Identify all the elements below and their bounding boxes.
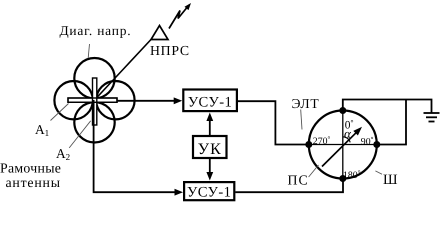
- svg-text:УСУ-1: УСУ-1: [188, 94, 232, 110]
- wire upper USU-1 to CRT left plate: [238, 101, 306, 144]
- angle alpha arc: [343, 137, 350, 143]
- loop antenna A1 horizontal frame: [68, 98, 117, 102]
- incoming radio wave zigzag arrow: [169, 5, 189, 29]
- callout line from Sh to CRT: [375, 171, 382, 174]
- ground symbol: [424, 112, 440, 114]
- wire UK to lower USU-1: [209, 158, 211, 174]
- NPRS antenna triangle: [151, 26, 168, 40]
- wire from loops down to lower USU-1: [94, 100, 175, 192]
- node left plate: [305, 141, 312, 148]
- svg-text:Диаг. напр.: Диаг. напр.: [60, 23, 132, 38]
- svg-text:НПРС: НПРС: [150, 43, 190, 58]
- crossing of the two loop frames: [68, 98, 117, 102]
- svg-text:Ш: Ш: [383, 172, 398, 188]
- block USU-1 lower: [184, 182, 234, 200]
- svg-text:ЭЛТ: ЭЛТ: [292, 96, 320, 111]
- CRT vertical diameter: [342, 111, 344, 179]
- antenna directivity pattern circle bottom: [74, 102, 114, 142]
- svg-text:УК: УК: [198, 141, 222, 158]
- callout line from A2 to vertical frame: [69, 121, 91, 148]
- wire CRT top plate to ground line: [343, 100, 432, 113]
- callout line from PS to CRT: [309, 165, 319, 177]
- loop antenna A2 vertical frame: [93, 78, 97, 125]
- callout line from ELT to CRT: [301, 110, 302, 130]
- wire from loops to upper USU-1: [117, 100, 175, 102]
- callout line from Diag. napr. to pattern: [88, 44, 89, 58]
- CRT beam pointer arrow: [322, 132, 357, 167]
- callout line from A1 to horizontal frame: [51, 104, 69, 121]
- svg-text:α: α: [344, 126, 352, 141]
- block USU-1 upper: [183, 90, 237, 112]
- node bottom plate: [339, 175, 346, 182]
- svg-text:УСУ-1: УСУ-1: [187, 185, 231, 201]
- wire UK to upper USU-1: [209, 119, 211, 136]
- block UK: [193, 136, 227, 158]
- antenna directivity pattern circle top: [74, 58, 114, 98]
- svg-text:антенны: антенны: [6, 175, 61, 190]
- CRT screen circle: [309, 111, 377, 179]
- svg-text:Рамочные: Рамочные: [0, 161, 61, 176]
- CRT horizontal diameter: [309, 144, 377, 146]
- svg-text:ПС: ПС: [288, 173, 309, 188]
- wire CRT right plate to ground line: [377, 100, 406, 145]
- antenna directivity pattern circle left: [54, 81, 92, 119]
- wire lower USU-1 to CRT bottom plate: [235, 179, 343, 193]
- node right plate: [373, 141, 380, 148]
- node top plate: [339, 107, 346, 114]
- wire diagonal from antenna centre to NPRS triangle: [95, 40, 152, 101]
- antenna directivity pattern circle right: [96, 81, 134, 119]
